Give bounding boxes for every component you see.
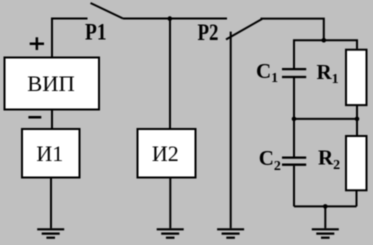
svg-text:Р2: Р2	[198, 20, 219, 45]
svg-text:И2: И2	[152, 141, 179, 166]
svg-text:Р1: Р1	[85, 19, 107, 44]
svg-text:И1: И1	[36, 141, 63, 166]
svg-text:ВИП: ВИП	[27, 71, 75, 96]
